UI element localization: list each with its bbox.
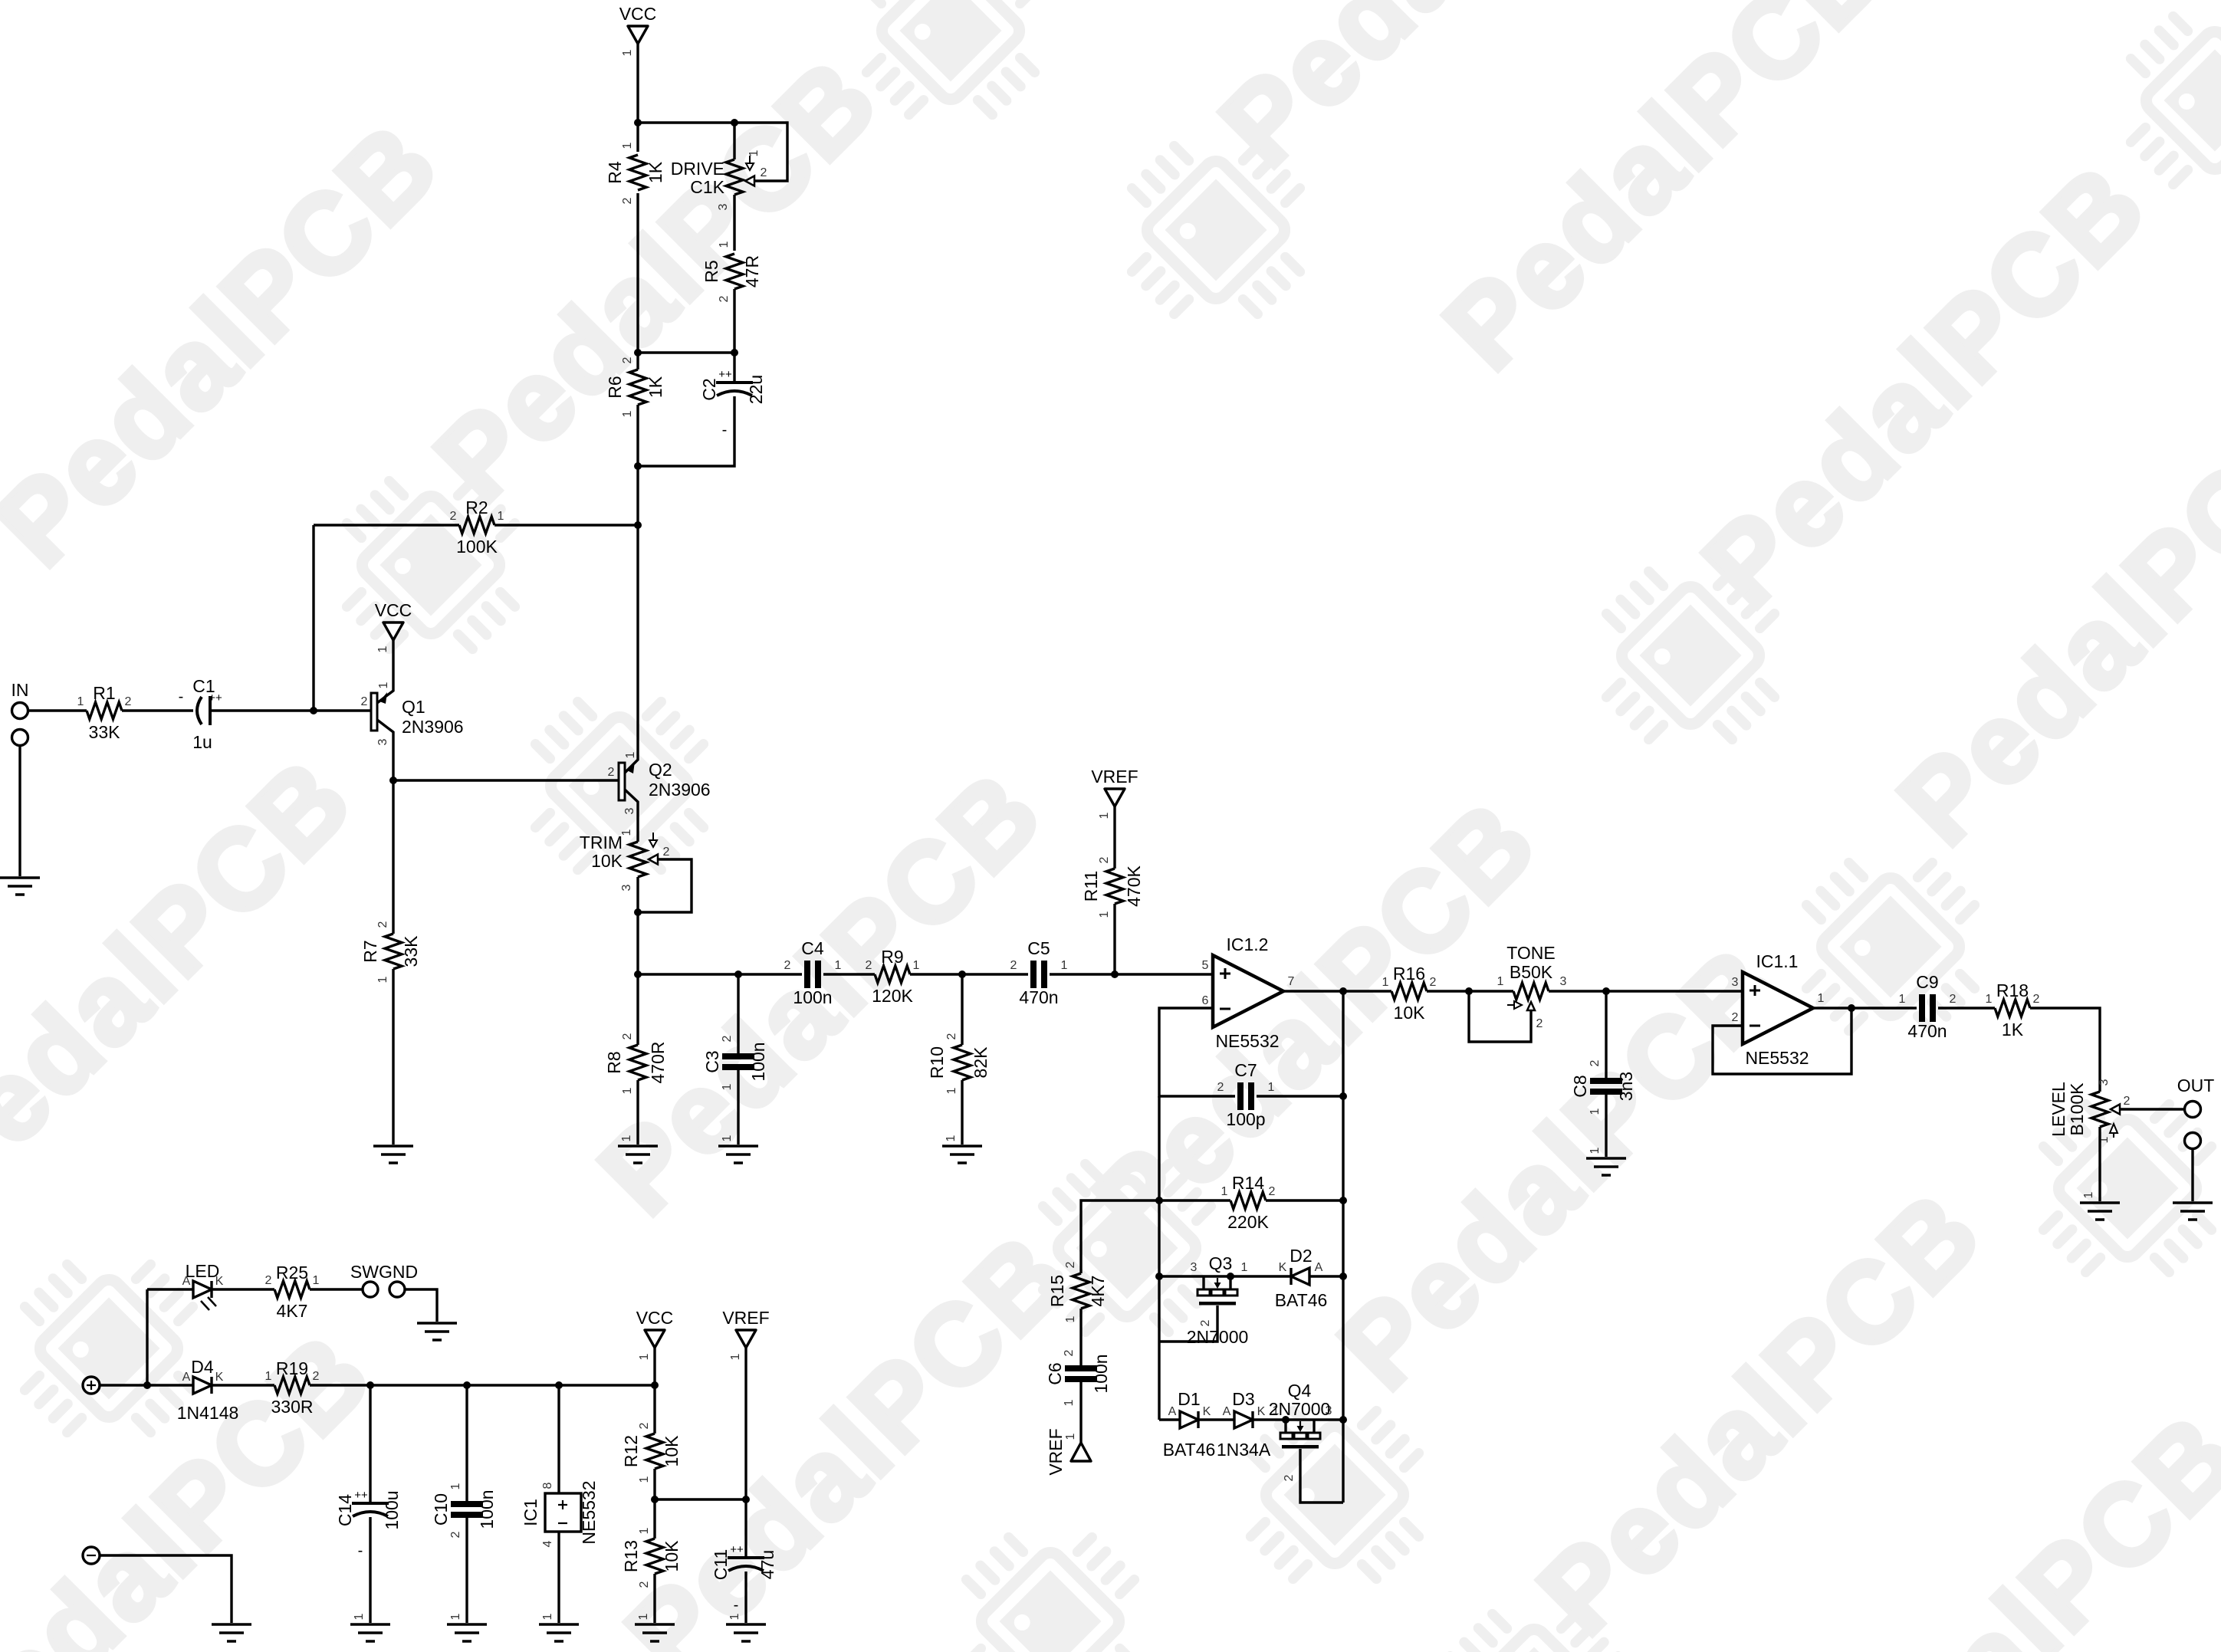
svg-text:A: A [182, 1371, 191, 1384]
svg-text:47u: 47u [757, 1550, 777, 1579]
svg-text:A: A [1315, 1261, 1323, 1274]
svg-text:R5: R5 [701, 260, 721, 282]
svg-text:1: 1 [2082, 1191, 2095, 1198]
svg-text:NE5532: NE5532 [579, 1480, 599, 1544]
svg-text:2: 2 [265, 1274, 272, 1287]
svg-text:B50K: B50K [1510, 962, 1553, 982]
svg-text:DRIVE: DRIVE [671, 159, 724, 179]
svg-text:C11: C11 [711, 1549, 731, 1581]
svg-text:1: 1 [1098, 911, 1111, 918]
svg-text:4: 4 [541, 1540, 554, 1547]
svg-text:2: 2 [1732, 1011, 1739, 1024]
svg-text:NE5532: NE5532 [1215, 1031, 1279, 1051]
svg-text:2: 2 [1430, 976, 1437, 989]
svg-text:1: 1 [620, 1135, 633, 1141]
svg-text:1: 1 [1818, 992, 1825, 1005]
svg-text:1: 1 [620, 829, 633, 836]
svg-text:K: K [1257, 1405, 1266, 1418]
svg-text:1: 1 [1589, 1108, 1602, 1115]
svg-text:3: 3 [1560, 975, 1567, 988]
svg-text:100n: 100n [477, 1489, 497, 1529]
svg-text:1: 1 [353, 1613, 366, 1620]
svg-text:1: 1 [449, 1613, 462, 1620]
svg-text:-: - [734, 1597, 739, 1614]
svg-text:R13: R13 [621, 1540, 641, 1572]
svg-text:2: 2 [621, 1033, 634, 1039]
svg-text:330R: 330R [271, 1397, 314, 1417]
svg-text:2: 2 [761, 166, 767, 179]
svg-text:2N3906: 2N3906 [649, 780, 711, 800]
svg-text:VCC: VCC [619, 4, 657, 24]
svg-text:R1: R1 [93, 683, 115, 703]
svg-text:3: 3 [2098, 1079, 2111, 1085]
svg-text:LEVEL: LEVEL [2049, 1082, 2068, 1137]
svg-text:1: 1 [637, 1613, 650, 1620]
svg-text:2: 2 [1283, 1474, 1296, 1481]
svg-text:2: 2 [2033, 993, 2040, 1006]
svg-text:R6: R6 [605, 376, 625, 398]
svg-text:1: 1 [1899, 993, 1906, 1006]
svg-text:D1: D1 [1178, 1389, 1200, 1409]
svg-text:R7: R7 [360, 940, 380, 962]
svg-text:2N7000: 2N7000 [1187, 1327, 1249, 1347]
svg-text:1: 1 [1063, 1399, 1076, 1406]
svg-text:3: 3 [376, 738, 389, 745]
svg-text:C5: C5 [1027, 938, 1050, 958]
svg-text:2: 2 [638, 1581, 651, 1588]
svg-text:VREF: VREF [1046, 1428, 1066, 1475]
svg-text:1N4148: 1N4148 [177, 1403, 239, 1423]
svg-text:1: 1 [621, 49, 634, 56]
svg-text:2N7000: 2N7000 [1269, 1399, 1331, 1419]
svg-text:6: 6 [1202, 994, 1209, 1007]
svg-text:R9: R9 [881, 947, 903, 967]
svg-text:100n: 100n [1091, 1354, 1111, 1393]
svg-text:1K: 1K [646, 376, 665, 398]
svg-text:47R: 47R [742, 255, 762, 287]
svg-text:TONE: TONE [1506, 943, 1555, 963]
svg-text:2: 2 [361, 695, 368, 708]
svg-text:1: 1 [747, 149, 761, 156]
svg-text:R10: R10 [927, 1046, 947, 1079]
svg-text:K: K [1279, 1261, 1287, 1274]
svg-text:1: 1 [1589, 1147, 1602, 1154]
svg-text:1: 1 [377, 681, 390, 688]
svg-text:1: 1 [835, 959, 842, 972]
svg-text:100p: 100p [1226, 1109, 1265, 1129]
svg-text:C3: C3 [702, 1050, 722, 1072]
svg-text:2: 2 [450, 510, 457, 523]
svg-text:-: - [358, 1542, 363, 1559]
svg-text:2: 2 [945, 1033, 958, 1039]
svg-text:R25: R25 [276, 1263, 308, 1283]
svg-text:A: A [1168, 1405, 1177, 1418]
svg-text:R18: R18 [1996, 980, 2029, 1000]
svg-text:B100K: B100K [2067, 1082, 2087, 1136]
svg-text:R4: R4 [605, 161, 625, 184]
svg-text:2: 2 [638, 1422, 651, 1429]
svg-text:R16: R16 [1393, 964, 1425, 984]
svg-text:1: 1 [638, 1476, 651, 1483]
svg-text:K: K [215, 1371, 224, 1384]
svg-text:2: 2 [721, 1035, 734, 1042]
svg-text:C10: C10 [431, 1493, 451, 1526]
svg-text:2: 2 [1199, 1319, 1212, 1326]
svg-text:1: 1 [729, 1353, 742, 1360]
svg-text:3n3: 3n3 [1616, 1072, 1636, 1101]
svg-text:R12: R12 [621, 1435, 641, 1467]
svg-text:33K: 33K [401, 935, 421, 967]
svg-text:3: 3 [717, 203, 730, 210]
svg-text:SWGND: SWGND [350, 1262, 418, 1282]
svg-text:1: 1 [718, 241, 731, 248]
svg-text:2N3906: 2N3906 [402, 717, 464, 737]
svg-text:100n: 100n [793, 987, 832, 1007]
svg-text:C8: C8 [1570, 1075, 1590, 1097]
svg-text:2: 2 [621, 356, 634, 363]
svg-text:R14: R14 [1232, 1173, 1264, 1193]
svg-text:TRIM: TRIM [580, 833, 623, 852]
svg-text:IN: IN [11, 680, 29, 700]
svg-text:1: 1 [721, 1135, 734, 1141]
svg-text:2: 2 [866, 959, 872, 972]
svg-text:470n: 470n [1907, 1021, 1947, 1041]
svg-text:Q2: Q2 [649, 760, 672, 780]
svg-text:++: ++ [354, 1489, 368, 1502]
svg-text:3: 3 [623, 807, 636, 814]
svg-text:R19: R19 [276, 1358, 308, 1378]
svg-text:1: 1 [77, 695, 84, 708]
svg-text:100n: 100n [748, 1042, 768, 1081]
svg-text:-: - [722, 422, 728, 438]
svg-text:4K7: 4K7 [1088, 1276, 1108, 1307]
svg-text:1: 1 [1064, 1433, 1077, 1440]
svg-text:4K7: 4K7 [277, 1301, 308, 1321]
svg-text:220K: 220K [1227, 1212, 1269, 1232]
svg-text:VREF: VREF [722, 1308, 769, 1328]
svg-text:1: 1 [376, 976, 389, 983]
svg-text:1: 1 [498, 510, 504, 523]
svg-text:1: 1 [1986, 993, 1993, 1006]
svg-text:82K: 82K [971, 1046, 991, 1079]
svg-text:-: - [179, 688, 184, 705]
svg-text:2: 2 [718, 295, 731, 302]
svg-text:1: 1 [624, 751, 637, 758]
svg-text:R2: R2 [465, 498, 488, 517]
svg-text:IC1.1: IC1.1 [1756, 951, 1799, 971]
svg-text:VCC: VCC [636, 1308, 674, 1328]
svg-text:K: K [1203, 1405, 1211, 1418]
svg-text:2: 2 [621, 197, 634, 204]
svg-text:3: 3 [1732, 976, 1739, 989]
svg-text:D4: D4 [191, 1357, 214, 1377]
svg-text:A: A [1223, 1405, 1231, 1418]
svg-text:100K: 100K [456, 537, 498, 557]
svg-text:1: 1 [945, 1087, 958, 1094]
svg-text:1: 1 [376, 645, 389, 652]
svg-text:2: 2 [784, 959, 791, 972]
svg-text:33K: 33K [89, 722, 121, 742]
svg-text:1: 1 [1061, 959, 1068, 972]
svg-text:2: 2 [1589, 1059, 1602, 1066]
svg-text:R11: R11 [1081, 871, 1101, 902]
svg-text:R8: R8 [604, 1051, 624, 1073]
svg-text:C2: C2 [699, 378, 719, 400]
svg-text:2: 2 [1950, 993, 1957, 1006]
svg-text:C4: C4 [801, 938, 824, 958]
svg-text:Q1: Q1 [402, 697, 425, 717]
svg-text:1: 1 [449, 1483, 462, 1489]
svg-text:VCC: VCC [375, 600, 412, 620]
svg-text:D2: D2 [1290, 1246, 1312, 1266]
svg-text:1K: 1K [646, 161, 665, 183]
svg-text:3: 3 [620, 884, 633, 891]
svg-text:3: 3 [1191, 1261, 1198, 1274]
svg-text:8: 8 [541, 1482, 554, 1489]
svg-text:1: 1 [541, 1613, 554, 1620]
svg-text:2: 2 [125, 695, 132, 708]
svg-text:1u: 1u [192, 732, 212, 752]
svg-text:1: 1 [1098, 812, 1111, 819]
svg-text:10K: 10K [591, 851, 623, 871]
svg-text:120K: 120K [872, 986, 913, 1006]
svg-text:C6: C6 [1045, 1362, 1065, 1384]
svg-text:1K: 1K [2002, 1020, 2024, 1039]
svg-text:C1K: C1K [690, 177, 724, 197]
svg-text:1: 1 [621, 142, 634, 149]
svg-text:OUT: OUT [2177, 1076, 2215, 1095]
svg-text:10K: 10K [662, 1540, 682, 1572]
svg-text:C7: C7 [1234, 1060, 1257, 1080]
svg-text:BAT46: BAT46 [1275, 1290, 1328, 1310]
svg-text:2: 2 [449, 1531, 462, 1538]
svg-text:++: ++ [730, 1543, 744, 1556]
svg-text:1: 1 [721, 1083, 734, 1090]
svg-text:1: 1 [1268, 1081, 1275, 1094]
svg-text:22u: 22u [746, 375, 766, 404]
svg-text:2: 2 [313, 1370, 320, 1383]
svg-text:2: 2 [1064, 1261, 1077, 1268]
svg-text:2: 2 [1098, 856, 1111, 863]
svg-text:10K: 10K [662, 1435, 682, 1467]
svg-text:2: 2 [1269, 1185, 1276, 1198]
svg-text:100u: 100u [382, 1490, 402, 1529]
svg-text:Q4: Q4 [1288, 1381, 1312, 1401]
svg-text:470R: 470R [648, 1042, 668, 1084]
svg-text:1: 1 [638, 1527, 651, 1534]
svg-text:D3: D3 [1232, 1389, 1254, 1409]
svg-text:1: 1 [1064, 1315, 1077, 1322]
svg-text:2: 2 [2124, 1095, 2131, 1108]
svg-text:1: 1 [945, 1135, 958, 1141]
svg-text:2: 2 [1010, 959, 1017, 972]
svg-text:C14: C14 [335, 1494, 355, 1526]
svg-text:2: 2 [1536, 1017, 1543, 1030]
svg-text:1N34A: 1N34A [1217, 1440, 1271, 1460]
svg-text:5: 5 [1202, 959, 1209, 972]
svg-text:A: A [182, 1275, 191, 1288]
svg-text:1: 1 [638, 1353, 651, 1360]
svg-text:NE5532: NE5532 [1745, 1048, 1809, 1068]
svg-text:10K: 10K [1394, 1003, 1426, 1023]
svg-text:1: 1 [1382, 976, 1389, 989]
svg-text:1: 1 [621, 410, 634, 417]
svg-text:C1: C1 [192, 676, 215, 696]
svg-text:2: 2 [376, 921, 389, 928]
svg-text:Q3: Q3 [1209, 1253, 1233, 1273]
svg-text:1: 1 [1497, 975, 1504, 988]
svg-text:1: 1 [1241, 1261, 1248, 1274]
svg-text:2: 2 [663, 846, 670, 859]
svg-text:IC1.2: IC1.2 [1227, 934, 1269, 954]
svg-text:2: 2 [1217, 1081, 1224, 1094]
svg-text:1: 1 [265, 1370, 272, 1383]
svg-text:2: 2 [608, 766, 615, 779]
svg-text:1: 1 [1221, 1185, 1228, 1198]
svg-text:VREF: VREF [1091, 767, 1138, 787]
svg-text:BAT46: BAT46 [1163, 1440, 1216, 1460]
svg-text:K: K [215, 1275, 224, 1288]
svg-text:1: 1 [313, 1274, 320, 1287]
svg-text:++: ++ [718, 368, 732, 381]
svg-text:R15: R15 [1047, 1275, 1067, 1307]
svg-text:2: 2 [1063, 1349, 1076, 1356]
svg-text:1: 1 [728, 1613, 741, 1620]
svg-text:470K: 470K [1124, 865, 1144, 906]
svg-text:C9: C9 [1916, 972, 1938, 992]
svg-text:1: 1 [621, 1087, 634, 1094]
svg-text:1: 1 [913, 959, 920, 972]
svg-text:IC1: IC1 [521, 1499, 540, 1526]
svg-text:7: 7 [1288, 975, 1295, 988]
svg-text:470n: 470n [1019, 987, 1058, 1007]
